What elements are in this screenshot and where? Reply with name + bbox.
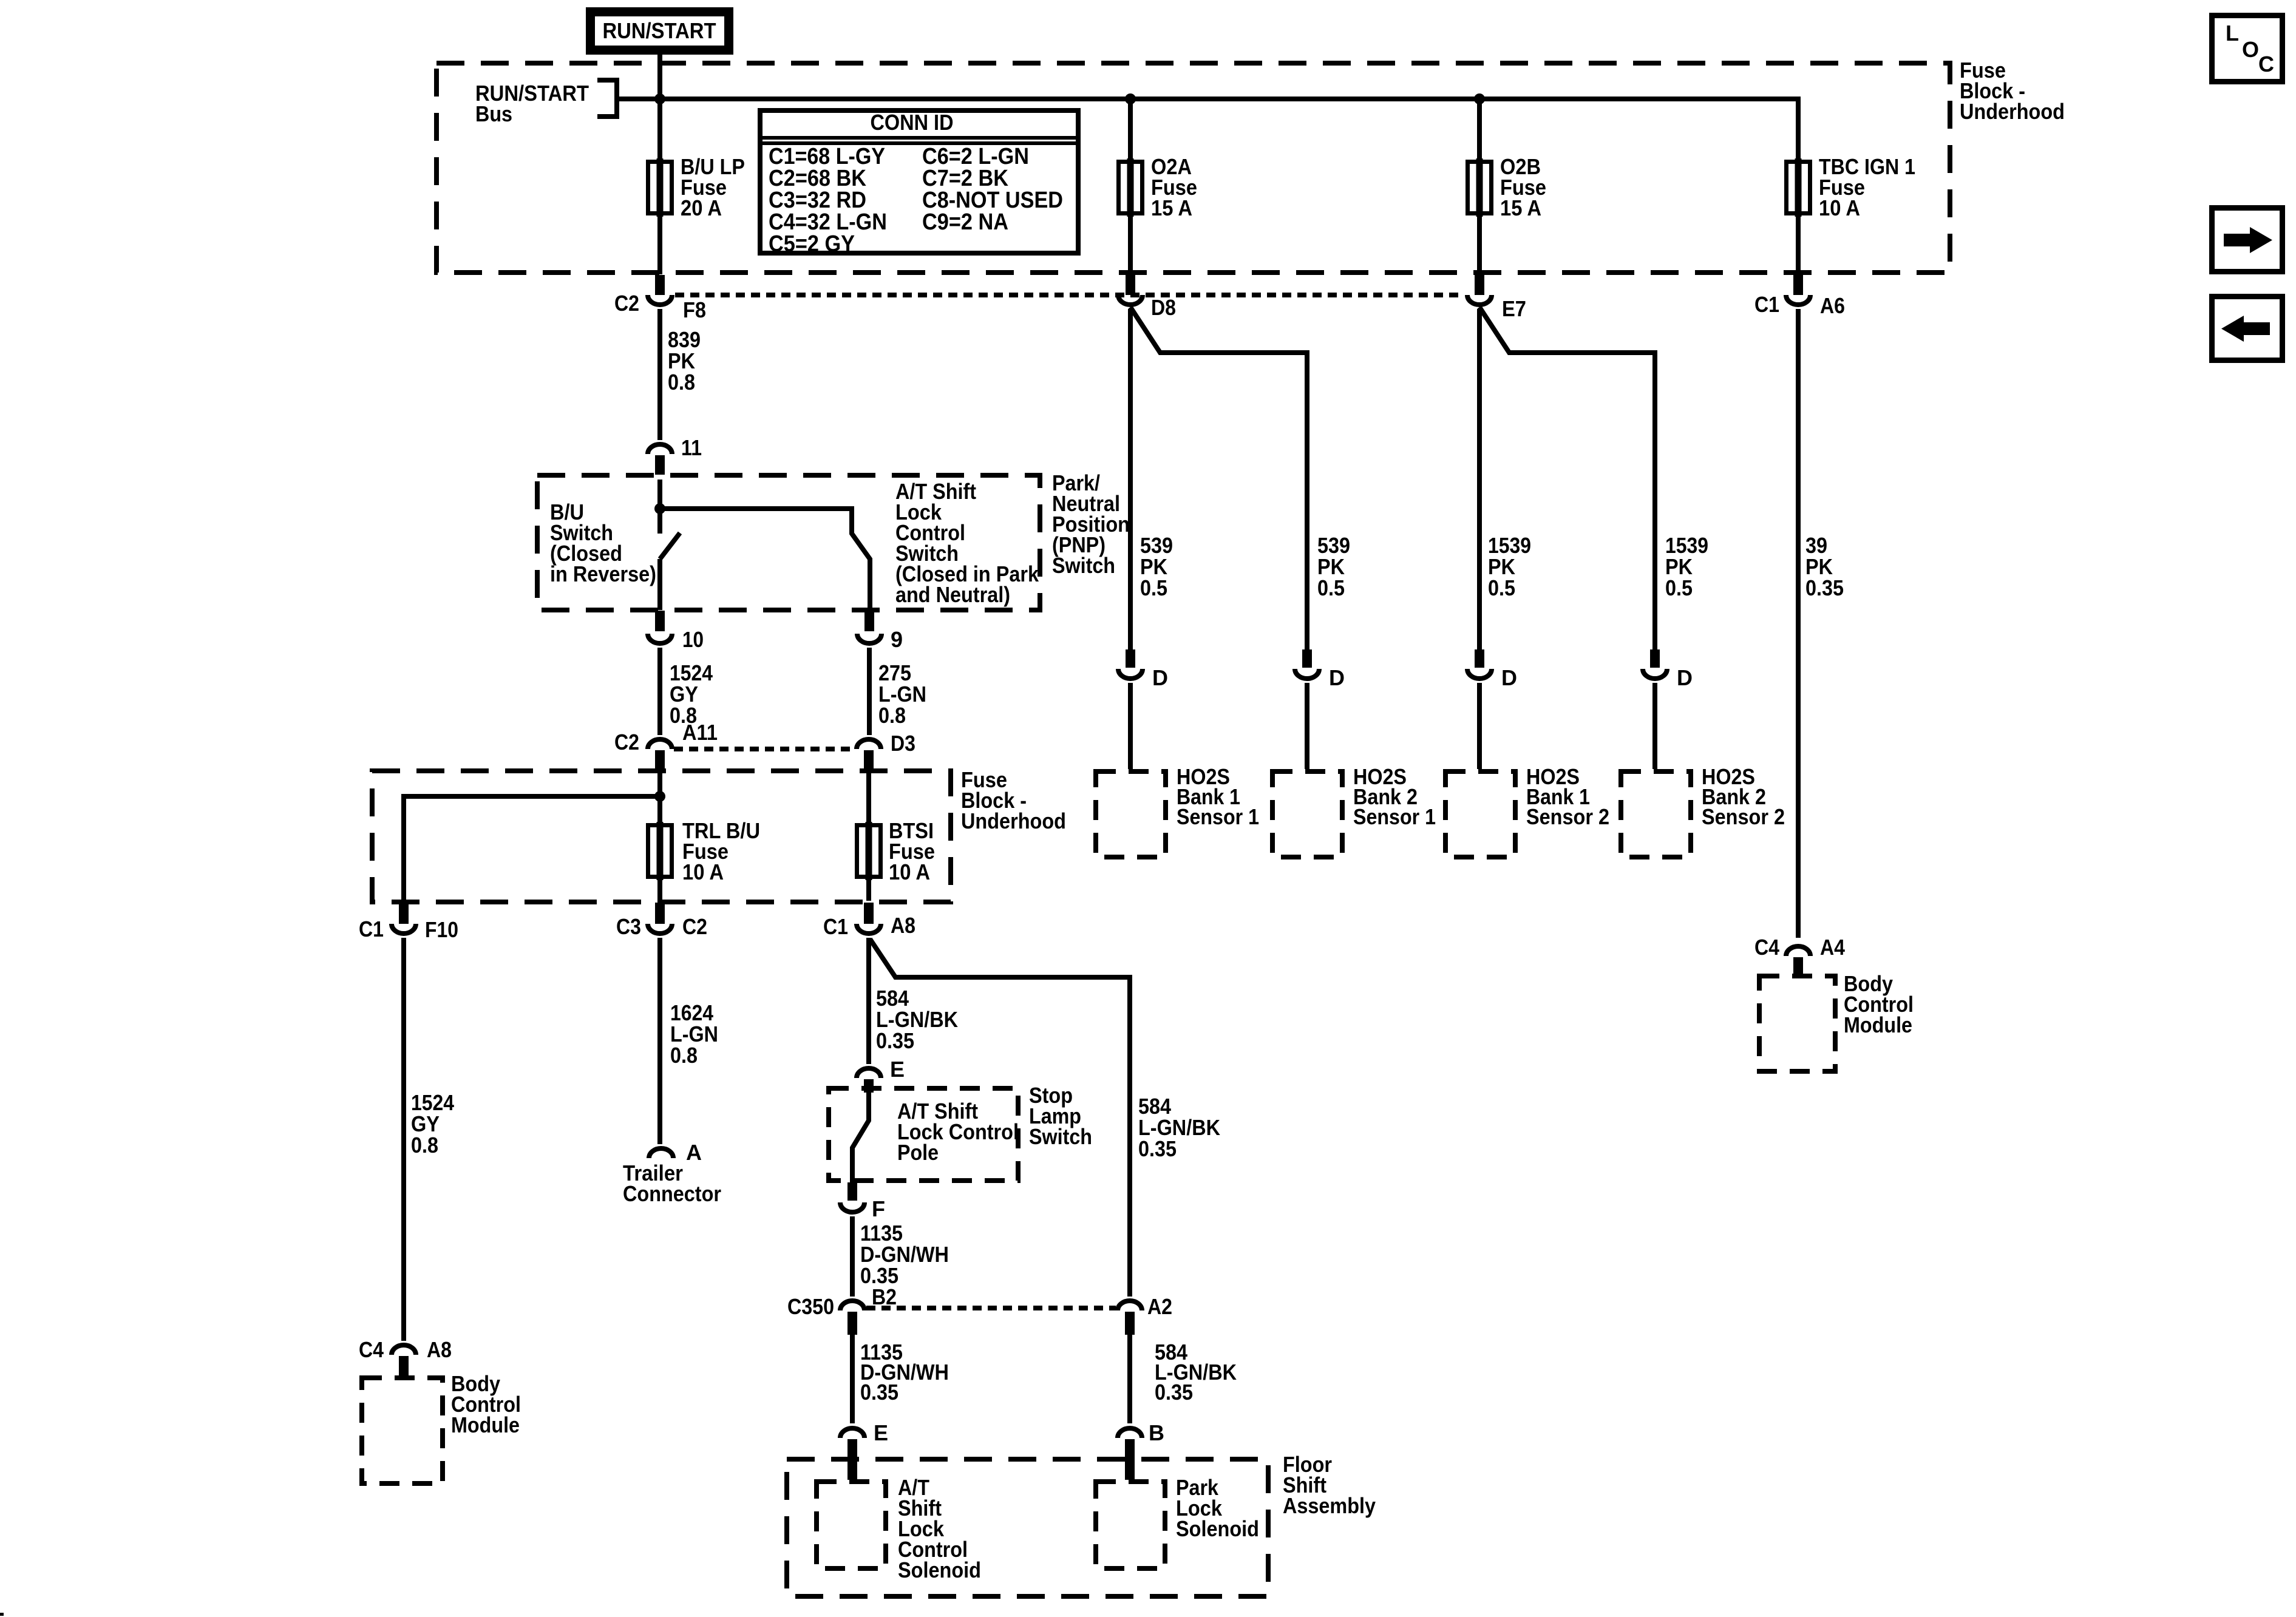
svg-text:E: E bbox=[890, 1057, 905, 1082]
wire branch to C1 F10 bbox=[404, 796, 660, 901]
svg-text:C: C bbox=[2258, 52, 2274, 76]
wire 275 L-GN 0.8 bbox=[869, 648, 926, 735]
junction bus / O2B bbox=[1474, 93, 1485, 104]
connector C2 F8 bbox=[614, 275, 706, 322]
svg-text:Switch: Switch bbox=[1052, 553, 1115, 578]
svg-text:Connector: Connector bbox=[623, 1181, 721, 1206]
wire O2A fuse to D8 bbox=[1128, 217, 1133, 274]
HO2S box (D8 diagonal) bbox=[1272, 764, 1436, 857]
back arrow box bbox=[2212, 297, 2283, 361]
connector C1 A6 bbox=[1754, 275, 1845, 318]
svg-text:Underhood: Underhood bbox=[1960, 99, 2065, 124]
wire O2B fuse to bus bbox=[1477, 99, 1482, 160]
connector D (E7 diagonal) bbox=[1643, 649, 1693, 690]
svg-text:10: 10 bbox=[682, 627, 704, 652]
svg-text:D8: D8 bbox=[1151, 295, 1176, 320]
svg-text:A: A bbox=[686, 1140, 702, 1165]
svg-text:0.5: 0.5 bbox=[1140, 575, 1167, 600]
svg-text:20 A: 20 A bbox=[681, 195, 722, 220]
wire TBC IGN 1 fuse to A6 bbox=[1796, 217, 1801, 274]
svg-text:0.35: 0.35 bbox=[860, 1380, 898, 1405]
svg-text:A4: A4 bbox=[1820, 935, 1845, 960]
svg-text:E7: E7 bbox=[1502, 296, 1526, 321]
svg-text:C4: C4 bbox=[359, 1337, 384, 1362]
wire D to HO2S box (E7 straight) bbox=[1477, 683, 1482, 769]
fuse BTSI 10 A bbox=[857, 818, 936, 884]
page corner mark bbox=[0, 1613, 4, 1616]
wire RUN/START to B/U LP fuse bbox=[657, 55, 662, 160]
svg-text:C1: C1 bbox=[359, 917, 384, 941]
A/T shift lock control switch label bbox=[895, 479, 1039, 607]
connector C4 A4 bbox=[1754, 935, 1845, 976]
wire O2B fuse to E7 bbox=[1477, 217, 1482, 274]
svg-text:A8: A8 bbox=[891, 913, 915, 938]
wire E7 to HO2S bank1 sensor2 bbox=[1477, 309, 1482, 649]
svg-text:0.5: 0.5 bbox=[1488, 575, 1515, 600]
svg-text:Bus: Bus bbox=[475, 101, 512, 126]
fuse O2A 15 A bbox=[1119, 154, 1198, 220]
junction to F10 branch bbox=[654, 791, 665, 802]
wire 584 L-GN/BK 0.35 (lower) bbox=[1130, 1335, 1237, 1423]
svg-text:in Reverse): in Reverse) bbox=[550, 561, 656, 586]
junction node B/U switch bbox=[654, 503, 665, 514]
svg-text:CONN ID: CONN ID bbox=[871, 110, 954, 135]
LOC reference box bbox=[2212, 16, 2283, 82]
wire D3 to BTSI fuse bbox=[866, 773, 871, 824]
park lock solenoid dashed box bbox=[1096, 1475, 1259, 1568]
dotted harness line A11 to D3 bbox=[674, 747, 855, 751]
wire D to HO2S box (D8 straight) bbox=[1128, 683, 1133, 769]
svg-text:10 A: 10 A bbox=[889, 859, 930, 884]
connector C1 A8 bbox=[823, 903, 915, 939]
svg-text:Sensor 1: Sensor 1 bbox=[1353, 804, 1436, 829]
wire 1135 D-GN/WH 0.35 (upper) bbox=[852, 1216, 949, 1297]
svg-text:C1: C1 bbox=[823, 914, 848, 939]
wire 584 L-GN/BK 0.35 (to E) bbox=[869, 938, 958, 1064]
svg-text:Pole: Pole bbox=[897, 1140, 939, 1165]
svg-text:Solenoid: Solenoid bbox=[898, 1558, 981, 1582]
svg-text:9: 9 bbox=[891, 627, 903, 652]
svg-text:D: D bbox=[1677, 665, 1693, 690]
wire D8 to HO2S bank1 sensor1 bbox=[1128, 309, 1133, 649]
svg-text:Underhood: Underhood bbox=[961, 808, 1066, 833]
connector F bbox=[840, 1182, 885, 1221]
svg-text:0.35: 0.35 bbox=[1138, 1136, 1177, 1161]
svg-text:C2: C2 bbox=[682, 914, 707, 939]
fuse TRL B/U 10 A bbox=[648, 818, 761, 884]
svg-text:0.8: 0.8 bbox=[668, 370, 695, 395]
svg-text:and Neutral): and Neutral) bbox=[895, 582, 1010, 607]
wire 1524 GY 0.8 (left) bbox=[404, 938, 454, 1341]
connector B bbox=[1118, 1420, 1164, 1480]
forward arrow box bbox=[2212, 208, 2283, 272]
connector E7 bbox=[1467, 275, 1526, 321]
bus wire bbox=[617, 99, 1798, 160]
power feed box RUN/START bbox=[591, 12, 729, 50]
svg-text:11: 11 bbox=[681, 435, 702, 460]
fuse B/U LP 20 A bbox=[648, 154, 746, 220]
junction bus / B-U LP bbox=[654, 93, 665, 104]
svg-text:D3: D3 bbox=[891, 731, 915, 756]
svg-text:F10: F10 bbox=[425, 917, 458, 942]
HO2S box (E7 straight) bbox=[1445, 764, 1609, 857]
svg-text:0.8: 0.8 bbox=[878, 703, 906, 728]
svg-text:C4: C4 bbox=[1754, 935, 1779, 960]
svg-text:C5=2 GY: C5=2 GY bbox=[769, 231, 855, 257]
svg-text:D: D bbox=[1501, 665, 1517, 690]
svg-text:Solenoid: Solenoid bbox=[1176, 1516, 1259, 1541]
wire D to HO2S box (E7 diagonal) bbox=[1652, 683, 1657, 769]
dotted harness line F8 to E7 bbox=[675, 293, 1464, 297]
wire 839 PK 0.8 bbox=[660, 309, 701, 440]
connector D3 bbox=[857, 731, 915, 771]
dotted harness line B2 to A2 bbox=[866, 1306, 1116, 1310]
svg-text:B: B bbox=[1149, 1420, 1164, 1445]
RUN/START Bus label with bracket bbox=[475, 80, 617, 126]
svg-text:0.35: 0.35 bbox=[1155, 1380, 1193, 1405]
wire A11 to TRL B/U fuse bbox=[657, 773, 662, 824]
svg-text:Module: Module bbox=[451, 1412, 520, 1437]
A/T shift lock control pole label bbox=[897, 1099, 1019, 1165]
wire D to HO2S box (D8 diagonal) bbox=[1305, 683, 1309, 769]
connector A trailer bbox=[623, 1140, 721, 1206]
svg-text:A11: A11 bbox=[682, 720, 718, 745]
svg-text:Module: Module bbox=[1844, 1012, 1912, 1037]
svg-text:0.5: 0.5 bbox=[1665, 575, 1693, 600]
svg-text:A6: A6 bbox=[1820, 293, 1845, 318]
connector C2 A11 bbox=[614, 720, 718, 771]
svg-text:C2: C2 bbox=[614, 730, 639, 754]
svg-text:A2: A2 bbox=[1147, 1294, 1172, 1319]
stop lamp switch dashed box bbox=[829, 1083, 1092, 1181]
wire B/U LP fuse to C2 F8 bbox=[657, 217, 662, 274]
CONN ID table bbox=[760, 110, 1078, 257]
svg-text:C350: C350 bbox=[787, 1294, 834, 1319]
fuse TBC IGN 1 10 A bbox=[1787, 154, 1916, 220]
connector D (D8 diagonal) bbox=[1295, 649, 1345, 690]
svg-text:0.35: 0.35 bbox=[876, 1028, 914, 1053]
body control module (right) dashed box bbox=[1759, 971, 1914, 1071]
svg-text:RUN/START: RUN/START bbox=[603, 18, 716, 43]
connector E stop lamp switch bbox=[857, 1057, 905, 1093]
wire E7 diagonal branch to HO2S bank2 sensor2 bbox=[1479, 307, 1655, 649]
svg-text:B2: B2 bbox=[872, 1284, 897, 1309]
connector 11 bbox=[648, 435, 702, 475]
HO2S box (D8 straight) bbox=[1096, 764, 1259, 857]
svg-text:Sensor 2: Sensor 2 bbox=[1702, 804, 1785, 829]
svg-text:Switch: Switch bbox=[1029, 1124, 1092, 1149]
connector C350 B2 bbox=[787, 1284, 897, 1335]
svg-text:D: D bbox=[1329, 665, 1345, 690]
svg-text:C1: C1 bbox=[1754, 292, 1779, 317]
wire label 539 PK for D8 straight bbox=[1140, 533, 1173, 600]
wire O2A fuse to bus bbox=[1128, 99, 1133, 160]
svg-text:15 A: 15 A bbox=[1151, 195, 1192, 220]
junction bus / O2A bbox=[1125, 93, 1136, 104]
wire into B/U switch bbox=[657, 480, 662, 534]
wire 584 branch to A2 bbox=[870, 939, 1220, 1297]
connector C4 A8 bbox=[359, 1337, 452, 1379]
floor shift assembly dashed box bbox=[787, 1452, 1376, 1596]
fuse block - underhood (top) dashed box bbox=[436, 58, 2065, 273]
svg-text:15 A: 15 A bbox=[1500, 195, 1541, 220]
svg-text:E: E bbox=[874, 1420, 888, 1445]
svg-text:10 A: 10 A bbox=[1819, 195, 1860, 220]
connector 10 bbox=[648, 611, 704, 652]
svg-text:C2: C2 bbox=[614, 291, 639, 316]
svg-text:Sensor 2: Sensor 2 bbox=[1526, 804, 1609, 829]
HO2S box (E7 diagonal) bbox=[1621, 764, 1785, 857]
connector A2 bbox=[1118, 1294, 1172, 1335]
wire label 1539 PK for E7 diagonal bbox=[1665, 533, 1708, 600]
fuse O2B 15 A bbox=[1468, 154, 1547, 220]
svg-text:Assembly: Assembly bbox=[1283, 1493, 1376, 1518]
A/T shift lock control solenoid dashed box bbox=[817, 1475, 981, 1582]
B/U switch label bbox=[550, 500, 656, 586]
connector D (E7 straight) bbox=[1467, 649, 1517, 690]
svg-text:0.8: 0.8 bbox=[411, 1133, 438, 1158]
B/U switch blade (open, closed in reverse) bbox=[660, 533, 680, 610]
connector D (D8 straight) bbox=[1118, 649, 1168, 690]
svg-text:0.8: 0.8 bbox=[670, 1043, 698, 1068]
shift lock pole blade bbox=[852, 1093, 869, 1184]
svg-text:C9=2 NA: C9=2 NA bbox=[922, 209, 1008, 235]
park/neutral position switch dashed box bbox=[537, 470, 1130, 610]
wire 1135 D-GN/WH 0.35 (lower) bbox=[852, 1335, 949, 1423]
connector 9 bbox=[857, 611, 903, 652]
wire D8 diagonal branch to HO2S bank2 sensor1 bbox=[1130, 307, 1307, 649]
body control module (left) dashed box bbox=[362, 1371, 521, 1483]
wire 1624 L-GN 0.8 bbox=[660, 938, 718, 1144]
svg-text:F: F bbox=[872, 1196, 885, 1221]
connector E floor shift bbox=[840, 1420, 888, 1480]
svg-text:O: O bbox=[2242, 37, 2259, 62]
svg-text:0.35: 0.35 bbox=[1805, 575, 1844, 600]
wire BTSI fuse to C1 A8 bbox=[866, 879, 871, 901]
wire 39 PK 0.35 bbox=[1798, 309, 1844, 938]
wire label 539 PK for D8 diagonal bbox=[1317, 533, 1350, 600]
wire 1524 GY 0.8 (upper) bbox=[660, 648, 713, 735]
svg-text:Sensor 1: Sensor 1 bbox=[1177, 804, 1259, 829]
wire label 1539 PK for E7 straight bbox=[1488, 533, 1531, 600]
svg-text:A8: A8 bbox=[427, 1337, 452, 1362]
wire TRL fuse to C3 C2 bbox=[657, 879, 662, 901]
svg-text:C3: C3 bbox=[616, 914, 641, 939]
connector C1 F10 bbox=[359, 903, 458, 942]
svg-text:0.5: 0.5 bbox=[1317, 575, 1345, 600]
svg-text:D: D bbox=[1152, 665, 1168, 690]
A/T shift lock control switch blade bbox=[660, 509, 870, 610]
fuse block - underhood (lower) dashed box bbox=[372, 767, 1066, 902]
svg-text:F8: F8 bbox=[683, 297, 706, 322]
svg-text:10 A: 10 A bbox=[682, 859, 724, 884]
connector C3 C2 bbox=[616, 903, 707, 939]
svg-text:L: L bbox=[2226, 21, 2239, 46]
connector D8 bbox=[1118, 275, 1176, 320]
